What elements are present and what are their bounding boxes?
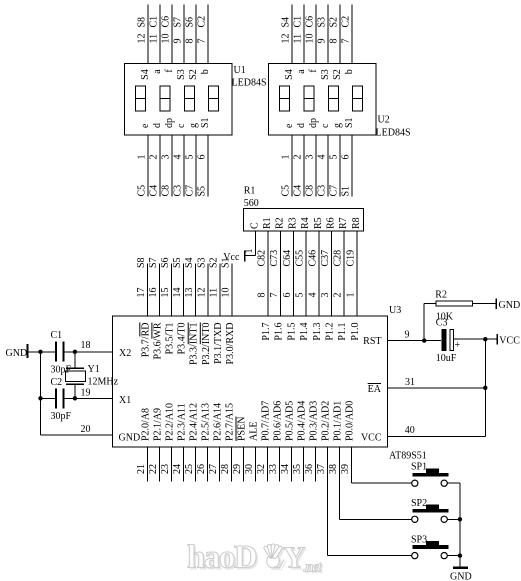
svg-text:S1: S1 xyxy=(344,117,355,128)
svg-text:C82: C82 xyxy=(257,250,268,267)
wire U1 top pin 10 (net C6) xyxy=(161,5,173,64)
svg-text:S4: S4 xyxy=(281,17,292,28)
wire U3 pin 27 stub xyxy=(208,447,220,482)
svg-text:X1: X1 xyxy=(119,395,131,406)
svg-text:LED84S: LED84S xyxy=(232,78,267,89)
svg-text:P2.0/A8: P2.0/A8 xyxy=(141,408,152,441)
wire R1 common pin 1 to VCC xyxy=(244,231,256,255)
svg-text:P0.5/AD5: P0.5/AD5 xyxy=(285,401,296,441)
svg-text:P3.7/RD: P3.7/RD xyxy=(140,323,151,358)
wire U1 bottom pin 2 (net C4) xyxy=(149,135,161,197)
junction RST node xyxy=(422,338,426,342)
svg-text:C28: C28 xyxy=(333,250,344,267)
svg-text:S4: S4 xyxy=(140,69,151,80)
wire U3 pin 31 EA to VCC rail xyxy=(388,377,486,388)
wire R1.R5 to U3 pin 4 (net C46) xyxy=(307,231,319,316)
wire U1 bottom pin 3 (net C8) xyxy=(161,135,173,197)
svg-text:R3: R3 xyxy=(287,217,298,229)
svg-text:P3.4/T0: P3.4/T0 xyxy=(177,323,188,355)
svg-text:C7: C7 xyxy=(329,185,340,197)
svg-text:11: 11 xyxy=(293,34,304,44)
wire C1 to U3 pin 18 (X2) xyxy=(65,340,113,352)
svg-text:9: 9 xyxy=(173,39,184,44)
svg-text:e: e xyxy=(284,123,295,128)
wire SP3 right terminal to GND rail xyxy=(447,555,460,557)
svg-text:C8: C8 xyxy=(305,185,316,197)
svg-text:13: 13 xyxy=(184,288,195,298)
svg-text:U1: U1 xyxy=(234,65,246,76)
svg-text:C3: C3 xyxy=(317,185,328,197)
svg-text:C64: C64 xyxy=(282,250,293,267)
svg-text:R2: R2 xyxy=(435,290,447,301)
svg-text:21: 21 xyxy=(136,464,147,474)
svg-text:C5: C5 xyxy=(281,185,292,197)
svg-text:P0.1/AD1: P0.1/AD1 xyxy=(333,401,344,441)
display U2 body xyxy=(269,64,377,135)
wire R1.R6 to U3 pin 3 (net C37) xyxy=(320,231,332,316)
svg-text:.net: .net xyxy=(303,560,322,576)
resistor network R1 body xyxy=(244,209,364,232)
svg-text:d: d xyxy=(152,123,163,128)
junction VCC node xyxy=(483,337,487,341)
svg-text:P2.1/A9: P2.1/A9 xyxy=(153,408,164,441)
svg-text:C1: C1 xyxy=(51,330,63,341)
svg-text:C19: C19 xyxy=(346,250,357,267)
wire left vertical GND rail xyxy=(40,352,42,435)
display U2 digit 3 xyxy=(328,86,338,111)
junction X1/crystal xyxy=(73,396,77,400)
wire U3 pin 39 P0.0 to SP1 xyxy=(340,447,412,483)
svg-text:C3: C3 xyxy=(173,185,184,197)
display U1 digit 3 xyxy=(184,86,194,111)
svg-text:24: 24 xyxy=(172,464,183,474)
wire U2 bottom pin 5 (net C7) xyxy=(329,135,341,197)
svg-text:18: 18 xyxy=(81,340,91,351)
svg-text:SP1: SP1 xyxy=(411,461,427,472)
svg-text:C4: C4 xyxy=(293,185,304,197)
push button SP2 xyxy=(411,498,449,522)
svg-text:12: 12 xyxy=(137,34,148,44)
wire U3 pin 12 (net S3) xyxy=(196,257,208,316)
svg-text:C2: C2 xyxy=(341,16,352,28)
wire U3 pin 32 stub xyxy=(256,447,268,482)
svg-text:C1: C1 xyxy=(149,16,160,28)
svg-text:R4: R4 xyxy=(300,217,311,229)
wire U1 bottom pin 6 (net S5) xyxy=(197,135,209,197)
svg-text:S3: S3 xyxy=(196,257,207,268)
svg-text:g: g xyxy=(188,123,199,128)
svg-text:P3.3/INT1: P3.3/INT1 xyxy=(189,323,200,366)
svg-text:28: 28 xyxy=(220,464,231,474)
push button SP1 xyxy=(411,461,449,486)
svg-text:30pF: 30pF xyxy=(51,365,72,376)
svg-text:5: 5 xyxy=(185,155,196,160)
svg-text:b: b xyxy=(344,69,355,74)
wire C2 to U3 pin 19 (X1) xyxy=(65,388,113,399)
svg-text:5: 5 xyxy=(329,155,340,160)
svg-text:C55: C55 xyxy=(295,250,306,267)
wire U2 top pin 12 (net S4) xyxy=(281,5,293,64)
svg-text:P1.4: P1.4 xyxy=(299,323,310,341)
wire U3 pin 37 P0.2 to SP3 xyxy=(316,447,412,556)
svg-text:9: 9 xyxy=(317,39,328,44)
svg-text:C1: C1 xyxy=(293,16,304,28)
svg-text:P0.6/AD6: P0.6/AD6 xyxy=(273,401,284,441)
wire U3 pin 40 VCC to VCC rail xyxy=(388,425,486,437)
svg-text:S5: S5 xyxy=(197,186,208,197)
svg-text:8: 8 xyxy=(257,293,268,298)
capacitor C3 10uF (polarized) xyxy=(436,317,461,364)
svg-text:560: 560 xyxy=(244,198,259,209)
svg-text:12: 12 xyxy=(196,288,207,298)
wire R1.R1 to U3 pin 8 (net C82) xyxy=(257,231,269,316)
svg-text:P3.1/TXD: P3.1/TXD xyxy=(213,323,224,364)
wire U1 bottom pin 5 (net C7) xyxy=(185,135,197,197)
wire U3 pin 14 (net S5) xyxy=(172,257,184,316)
svg-text:C2: C2 xyxy=(51,377,63,388)
svg-text:35: 35 xyxy=(292,464,303,474)
svg-text:S6: S6 xyxy=(160,257,171,268)
wire U2 top pin 8 (net S2) xyxy=(329,5,341,64)
svg-text:P0.0/AD0: P0.0/AD0 xyxy=(345,401,356,441)
svg-text:P2.6/A14: P2.6/A14 xyxy=(213,403,224,441)
wire U3 pin 23 stub xyxy=(160,447,172,482)
wire U2 bottom pin 2 (net C4) xyxy=(293,135,305,197)
svg-text:33: 33 xyxy=(268,464,279,474)
wire U3 pin 10 (net S1) xyxy=(221,257,233,316)
svg-text:U3: U3 xyxy=(389,305,401,316)
svg-text:31: 31 xyxy=(405,377,415,388)
svg-text:S4: S4 xyxy=(284,69,295,80)
power symbol VCC (at R1) xyxy=(223,251,244,263)
svg-text:S3: S3 xyxy=(317,17,328,28)
display U2 digit 2 xyxy=(304,86,314,111)
power symbol GND (right) xyxy=(496,298,520,311)
svg-text:10: 10 xyxy=(161,34,172,44)
display U2 digit 4 xyxy=(353,86,363,111)
svg-text:GND: GND xyxy=(499,300,521,311)
svg-text:P1.2: P1.2 xyxy=(325,323,336,341)
svg-text:P0.2/AD2: P0.2/AD2 xyxy=(321,401,332,441)
svg-text:3: 3 xyxy=(320,293,331,298)
svg-text:6: 6 xyxy=(341,155,352,160)
svg-text:7: 7 xyxy=(341,39,352,44)
svg-text:S1: S1 xyxy=(221,257,232,268)
wire U1 top pin 8 (net S6) xyxy=(185,5,197,64)
svg-text:S8: S8 xyxy=(136,257,147,268)
svg-text:20: 20 xyxy=(81,424,91,435)
svg-text:16: 16 xyxy=(148,288,159,298)
wire R2 right to GND xyxy=(473,303,497,305)
svg-text:9: 9 xyxy=(405,329,410,340)
svg-text:5: 5 xyxy=(295,293,306,298)
junction EA/VCC rail xyxy=(483,386,487,390)
wire U3 pin 15 (net S6) xyxy=(160,257,172,316)
svg-text:S2: S2 xyxy=(208,257,219,268)
wire U3 pin 26 stub xyxy=(196,447,208,482)
wire U3 pin 34 stub xyxy=(280,447,292,482)
svg-text:4: 4 xyxy=(173,155,184,160)
svg-text:S1: S1 xyxy=(341,186,352,197)
wire R1.R7 to U3 pin 2 (net C28) xyxy=(333,231,345,316)
wire SP2 right terminal to GND rail xyxy=(447,518,460,520)
wire U1 top pin 9 (net S7) xyxy=(173,5,185,64)
wire crystal bottom branch xyxy=(74,385,76,399)
svg-text:27: 27 xyxy=(208,464,219,474)
wire U3 pin 17 (net S8) xyxy=(136,257,148,316)
wire U3 pin 21 stub xyxy=(136,447,148,482)
wire RST node up to R2 xyxy=(423,304,425,341)
display U1 digit 4 xyxy=(209,86,219,111)
resistor R2 10K xyxy=(435,290,472,323)
junction GND rail / X1 line xyxy=(38,396,42,400)
svg-text:3: 3 xyxy=(161,155,172,160)
svg-text:d: d xyxy=(296,123,307,128)
svg-text:29: 29 xyxy=(232,464,243,474)
svg-text:R2: R2 xyxy=(275,217,286,229)
wire U3 pin 9 RST node xyxy=(388,329,442,340)
svg-text:R1: R1 xyxy=(262,217,273,229)
svg-text:GND: GND xyxy=(450,572,472,581)
svg-text:+: + xyxy=(455,340,461,351)
svg-text:C6: C6 xyxy=(161,16,172,28)
crystal Y1 12MHz xyxy=(65,364,118,388)
wire U3 pin 36 stub xyxy=(304,447,316,482)
svg-text:P0.3/AD3: P0.3/AD3 xyxy=(309,401,320,441)
svg-text:36: 36 xyxy=(304,464,315,474)
svg-text:P0.7/AD7: P0.7/AD7 xyxy=(261,401,272,441)
svg-text:23: 23 xyxy=(160,464,171,474)
svg-text:10: 10 xyxy=(221,288,232,298)
svg-text:10uF: 10uF xyxy=(436,353,457,364)
wire U3 pin 33 stub xyxy=(268,447,280,482)
wire U2 top pin 9 (net S3) xyxy=(317,5,329,64)
svg-text:S7: S7 xyxy=(173,17,184,28)
junction X2/crystal xyxy=(73,350,77,354)
svg-text:LED84S: LED84S xyxy=(376,128,411,139)
svg-text:10: 10 xyxy=(305,34,316,44)
svg-text:EA: EA xyxy=(368,384,382,395)
svg-text:1: 1 xyxy=(281,155,292,160)
svg-text:C2: C2 xyxy=(197,16,208,28)
MCU U3 AT89S51 body xyxy=(113,316,388,447)
wire buttons GND rail vertical xyxy=(459,483,461,567)
wire R1.R4 to U3 pin 5 (net C55) xyxy=(295,231,307,316)
svg-text:e: e xyxy=(140,123,151,128)
wire U3 pin 24 stub xyxy=(172,447,184,482)
svg-text:VCC: VCC xyxy=(361,433,382,444)
capacitor C2 30pF xyxy=(51,377,72,422)
svg-text:C46: C46 xyxy=(307,250,318,267)
svg-text:P1.0: P1.0 xyxy=(350,323,361,341)
svg-text:a: a xyxy=(296,69,307,74)
svg-text:P1.6: P1.6 xyxy=(274,323,285,341)
wire SP1 right terminal to GND rail xyxy=(447,482,460,484)
svg-text:c: c xyxy=(320,123,331,128)
svg-text:8: 8 xyxy=(185,39,196,44)
svg-text:c: c xyxy=(176,123,187,128)
wire U3 pin 13 (net S4) xyxy=(184,257,196,316)
svg-text:Y1: Y1 xyxy=(88,364,100,375)
push button SP3 xyxy=(411,535,449,559)
svg-text:P2.4/A12: P2.4/A12 xyxy=(189,403,200,441)
svg-text:S5: S5 xyxy=(172,257,183,268)
svg-text:S2: S2 xyxy=(332,69,343,80)
svg-text:8: 8 xyxy=(329,39,340,44)
svg-text:ALE: ALE xyxy=(249,422,260,441)
svg-text:C73: C73 xyxy=(269,250,280,267)
svg-text:C7: C7 xyxy=(185,185,196,197)
svg-text:P2.2/A10: P2.2/A10 xyxy=(165,403,176,441)
svg-text:C6: C6 xyxy=(305,16,316,28)
svg-text:S7: S7 xyxy=(148,257,159,268)
svg-text:S2: S2 xyxy=(329,17,340,28)
display U1 digit 1 xyxy=(136,86,146,111)
svg-text:R1: R1 xyxy=(244,186,256,197)
svg-text:R7: R7 xyxy=(338,217,349,229)
svg-text:P0.4/AD4: P0.4/AD4 xyxy=(297,401,308,441)
svg-text:GND: GND xyxy=(6,348,28,359)
wire U2 top pin 10 (net C6) xyxy=(305,5,317,64)
svg-text:S8: S8 xyxy=(137,17,148,28)
svg-text:7: 7 xyxy=(269,293,280,298)
svg-text:RST: RST xyxy=(363,336,381,347)
display U1 body xyxy=(125,64,233,135)
svg-text:Y: Y xyxy=(283,540,305,575)
svg-text:3: 3 xyxy=(305,155,316,160)
svg-text:P3.0/RXD: P3.0/RXD xyxy=(225,323,236,365)
svg-text:30pF: 30pF xyxy=(51,411,72,422)
display U1 digit 2 xyxy=(160,86,170,111)
svg-text:22: 22 xyxy=(148,464,159,474)
wire U3 pin 11 (net S2) xyxy=(208,257,220,316)
svg-text:14: 14 xyxy=(172,288,183,298)
svg-text:25: 25 xyxy=(184,464,195,474)
svg-text:dp: dp xyxy=(308,118,319,128)
svg-text:S4: S4 xyxy=(184,257,195,268)
svg-text:P1.1: P1.1 xyxy=(337,323,348,341)
svg-text:haoD: haoD xyxy=(187,540,257,576)
wire U1 top pin 7 (net C2) xyxy=(197,5,209,64)
svg-text:SP3: SP3 xyxy=(411,535,427,546)
svg-text:39: 39 xyxy=(340,464,351,474)
svg-text:P2.3/A11: P2.3/A11 xyxy=(177,403,188,441)
svg-text:P1.5: P1.5 xyxy=(286,323,297,341)
wire U1 top pin 12 (net S8) xyxy=(137,5,149,64)
svg-text:6: 6 xyxy=(282,293,293,298)
wire R1.R8 to U3 pin 1 (net C19) xyxy=(346,231,358,316)
svg-text:40: 40 xyxy=(405,425,415,436)
capacitor C1 30pF xyxy=(51,330,72,376)
svg-text:P1.3: P1.3 xyxy=(312,323,323,341)
svg-text:P3.6/WR: P3.6/WR xyxy=(152,322,163,359)
svg-text:11: 11 xyxy=(149,34,160,44)
svg-text:37: 37 xyxy=(316,464,327,474)
svg-text:1: 1 xyxy=(346,293,357,298)
svg-text:P1.7: P1.7 xyxy=(261,323,272,341)
svg-text:X2: X2 xyxy=(119,348,131,359)
svg-text:C8: C8 xyxy=(161,185,172,197)
svg-text:6: 6 xyxy=(197,155,208,160)
wire U2 bottom pin 3 (net C8) xyxy=(305,135,317,197)
wire U1 bottom pin 1 (net C5) xyxy=(137,135,149,197)
svg-text:U2: U2 xyxy=(378,115,390,126)
wire VCC rail vertical xyxy=(484,339,486,436)
wire U1 top pin 11 (net C1) xyxy=(149,5,161,64)
svg-text:P2.5/A13: P2.5/A13 xyxy=(201,403,212,441)
wire U3 pin 28 stub xyxy=(220,447,232,482)
wire U1 bottom pin 4 (net C3) xyxy=(173,135,185,197)
junction SP3/GND rail xyxy=(458,553,462,557)
wire U3 pin 29 stub xyxy=(232,447,244,482)
wire GND to C1 / X2 node xyxy=(28,351,56,353)
svg-text:2: 2 xyxy=(149,155,160,160)
wire GND rail to U3 pin 20 xyxy=(41,424,113,435)
wire U3 pin 22 stub xyxy=(148,447,160,482)
svg-text:17: 17 xyxy=(136,288,147,298)
wire U2 top pin 7 (net C2) xyxy=(341,5,353,64)
wire U3 pin 35 stub xyxy=(292,447,304,482)
display U2 digit 1 xyxy=(280,86,290,111)
svg-text:C37: C37 xyxy=(320,250,331,267)
svg-text:b: b xyxy=(200,69,211,74)
svg-text:P2.7/A15: P2.7/A15 xyxy=(225,403,236,441)
svg-text:4: 4 xyxy=(307,293,318,298)
svg-text:P3.5/T1: P3.5/T1 xyxy=(165,323,176,355)
svg-text:PSEN: PSEN xyxy=(237,417,248,441)
ground symbol (buttons) xyxy=(450,568,472,581)
wire C3 right to VCC node xyxy=(454,338,497,340)
svg-text:11: 11 xyxy=(208,288,219,298)
svg-text:AT89S51: AT89S51 xyxy=(389,451,427,462)
svg-text:2: 2 xyxy=(333,293,344,298)
svg-text:12: 12 xyxy=(281,34,292,44)
junction GND/C2 branch xyxy=(38,350,42,354)
svg-text:32: 32 xyxy=(256,464,267,474)
svg-text:30: 30 xyxy=(244,464,255,474)
svg-text:7: 7 xyxy=(197,39,208,44)
svg-text:dp: dp xyxy=(164,118,175,128)
wire U3 pin 30 stub xyxy=(244,447,256,482)
wire R1.R2 to U3 pin 7 (net C73) xyxy=(269,231,281,316)
wire GND rail to C2 xyxy=(41,397,56,399)
svg-text:C: C xyxy=(250,222,261,229)
svg-text:15: 15 xyxy=(160,288,171,298)
svg-text:C3: C3 xyxy=(436,317,448,328)
svg-text:R8: R8 xyxy=(351,217,362,229)
svg-text:R6: R6 xyxy=(326,217,337,229)
svg-text:34: 34 xyxy=(280,464,291,474)
svg-text:38: 38 xyxy=(328,464,339,474)
wire U2 bottom pin 4 (net C3) xyxy=(317,135,329,197)
svg-text:S3: S3 xyxy=(176,69,187,80)
svg-text:VCC: VCC xyxy=(499,336,520,347)
wire U2 top pin 11 (net C1) xyxy=(293,5,305,64)
svg-text:C5: C5 xyxy=(137,185,148,197)
wire U2 bottom pin 1 (net C5) xyxy=(281,135,293,197)
svg-text:S1: S1 xyxy=(200,117,211,128)
wire crystal top branch xyxy=(74,352,76,368)
wire U3 pin 25 stub xyxy=(184,447,196,482)
wire to R2 left xyxy=(424,303,436,305)
svg-text:2: 2 xyxy=(293,155,304,160)
svg-text:12MHz: 12MHz xyxy=(88,377,119,388)
power symbol VCC (right) xyxy=(497,334,520,347)
svg-text:GND: GND xyxy=(119,433,141,444)
svg-text:S3: S3 xyxy=(320,69,331,80)
wire U3 pin 38 P0.1 to SP2 xyxy=(328,447,412,519)
svg-text:R5: R5 xyxy=(313,217,324,229)
